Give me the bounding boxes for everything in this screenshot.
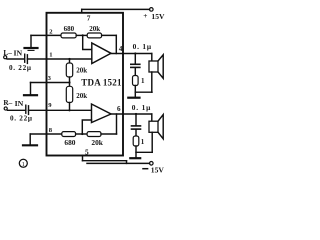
wire R3 to pin3	[69, 77, 71, 83]
svg-text:R–: R–	[3, 98, 12, 107]
wire pin5 stub	[82, 156, 84, 161]
wire pin4 output	[111, 53, 152, 55]
capacitor C3 0.1u	[131, 64, 140, 67]
terminal L-IN	[4, 56, 7, 59]
wire R2 to feedback vertical	[102, 34, 117, 36]
node +15V terminal	[150, 8, 154, 12]
wire inv input jog	[83, 35, 92, 49]
svg-text:1: 1	[141, 138, 145, 146]
wire pin3	[31, 82, 70, 84]
wire C2 to pin9	[29, 109, 47, 111]
svg-text:6: 6	[117, 105, 121, 113]
wire L-IN to C1	[7, 58, 24, 60]
svg-text:15V: 15V	[151, 12, 165, 21]
ground	[24, 94, 37, 96]
wire -15V rail	[87, 162, 150, 164]
svg-text:TDA 1521: TDA 1521	[81, 78, 122, 88]
node figure marker 1	[19, 159, 27, 167]
node junction bias2	[68, 81, 70, 83]
wire pin7 stub	[81, 9, 83, 12]
resistor R7 1	[133, 76, 139, 86]
op-amp A2 (bottom channel)	[92, 104, 112, 123]
wire R4 to pin9	[69, 103, 71, 111]
svg-text:1: 1	[141, 77, 145, 85]
svg-text:680: 680	[64, 138, 75, 147]
wire pin3 to ground	[30, 83, 32, 95]
wire tap to C4	[135, 114, 137, 125]
wire R1 to R2	[76, 34, 87, 36]
node junction fb bottom	[81, 133, 83, 135]
capacitor C2 0.22u	[26, 105, 29, 114]
svg-text:L–: L–	[3, 48, 12, 57]
wire drop to -15V rail	[126, 161, 128, 164]
wire R5 to R6	[76, 133, 88, 135]
wire R-IN to C2	[8, 109, 26, 111]
svg-text:3: 3	[48, 75, 52, 82]
wire pin8 net	[30, 133, 62, 135]
wire pin2 net	[31, 34, 61, 36]
svg-text:4: 4	[119, 45, 123, 53]
svg-text:20k: 20k	[91, 138, 103, 147]
wire feedback drop to output	[115, 35, 117, 53]
resistor R6 20k	[87, 132, 101, 137]
wire R7 down	[134, 86, 136, 93]
svg-text:0. 22μ: 0. 22μ	[10, 115, 33, 123]
wire R3 to R4 stub	[69, 83, 71, 88]
svg-text:0. 1μ: 0. 1μ	[133, 42, 152, 51]
wire pin5 horizontal	[83, 160, 127, 162]
svg-text:IN: IN	[14, 49, 23, 58]
wire inv input jog bottom	[82, 120, 91, 134]
resistor R5 680	[62, 132, 76, 137]
svg-text:15V: 15V	[151, 165, 165, 174]
speaker LS1	[149, 54, 163, 93]
wire pin6 output	[111, 113, 152, 115]
svg-text:8: 8	[49, 127, 53, 134]
wire pin9 to amp	[47, 109, 92, 111]
node junction bias3	[68, 109, 70, 111]
wire zobel node to speaker bottom	[136, 151, 152, 153]
node junction bias1	[68, 58, 70, 60]
ground	[23, 144, 37, 146]
wire C3 to R7	[134, 68, 136, 76]
node junction fb top	[82, 34, 84, 36]
svg-text:+: +	[143, 11, 147, 20]
resistor R1 680	[61, 33, 76, 38]
op-amp U1 (IC outline TDA1521)	[47, 13, 124, 156]
resistor R4 20k	[66, 86, 72, 102]
svg-text:7: 7	[87, 14, 91, 23]
wire pin8 to ground	[29, 134, 31, 145]
speaker LS2	[149, 114, 163, 152]
wire R6 to feedback vertical	[101, 133, 117, 135]
resistor R3 20k	[66, 63, 72, 77]
capacitor C4 0.1u	[132, 126, 141, 129]
svg-text:IN: IN	[15, 99, 24, 108]
ground	[128, 97, 139, 99]
svg-text:0. 22μ: 0. 22μ	[9, 64, 32, 72]
svg-text:20k: 20k	[76, 67, 87, 75]
svg-text:20k: 20k	[76, 92, 87, 100]
op-amp A1 (top channel)	[92, 43, 111, 64]
resistor R2 20k	[87, 33, 101, 38]
svg-text:9: 9	[48, 102, 52, 109]
svg-text:1: 1	[49, 52, 52, 59]
wire feedback rise to output	[116, 114, 118, 134]
node zobel tap top	[134, 52, 136, 54]
svg-text:680: 680	[64, 25, 75, 33]
wire C4 to R8	[135, 130, 137, 136]
wire tap to C3	[134, 54, 136, 64]
resistor R8 1	[133, 136, 139, 146]
svg-text:0. 1μ: 0. 1μ	[132, 103, 151, 112]
wire pin1 to amp	[47, 58, 92, 60]
wire to ground	[30, 35, 32, 47]
wire zobel node to speaker	[135, 91, 152, 93]
capacitor C1 0.22u	[25, 54, 28, 63]
wire +15V rail	[82, 8, 150, 10]
node zobel tap bottom	[135, 113, 137, 115]
ground	[130, 157, 140, 159]
ground	[25, 48, 38, 50]
svg-text:1: 1	[22, 161, 25, 168]
svg-text:5: 5	[85, 148, 89, 157]
svg-text:2: 2	[49, 29, 53, 36]
wire node to ground	[134, 92, 136, 96]
terminal R-IN	[4, 107, 7, 110]
wire bias stub	[69, 59, 71, 63]
wire R8 down	[135, 146, 137, 158]
node -15V terminal	[150, 162, 154, 166]
wire C1 to pin1	[27, 58, 46, 60]
svg-text:20k: 20k	[89, 25, 100, 33]
